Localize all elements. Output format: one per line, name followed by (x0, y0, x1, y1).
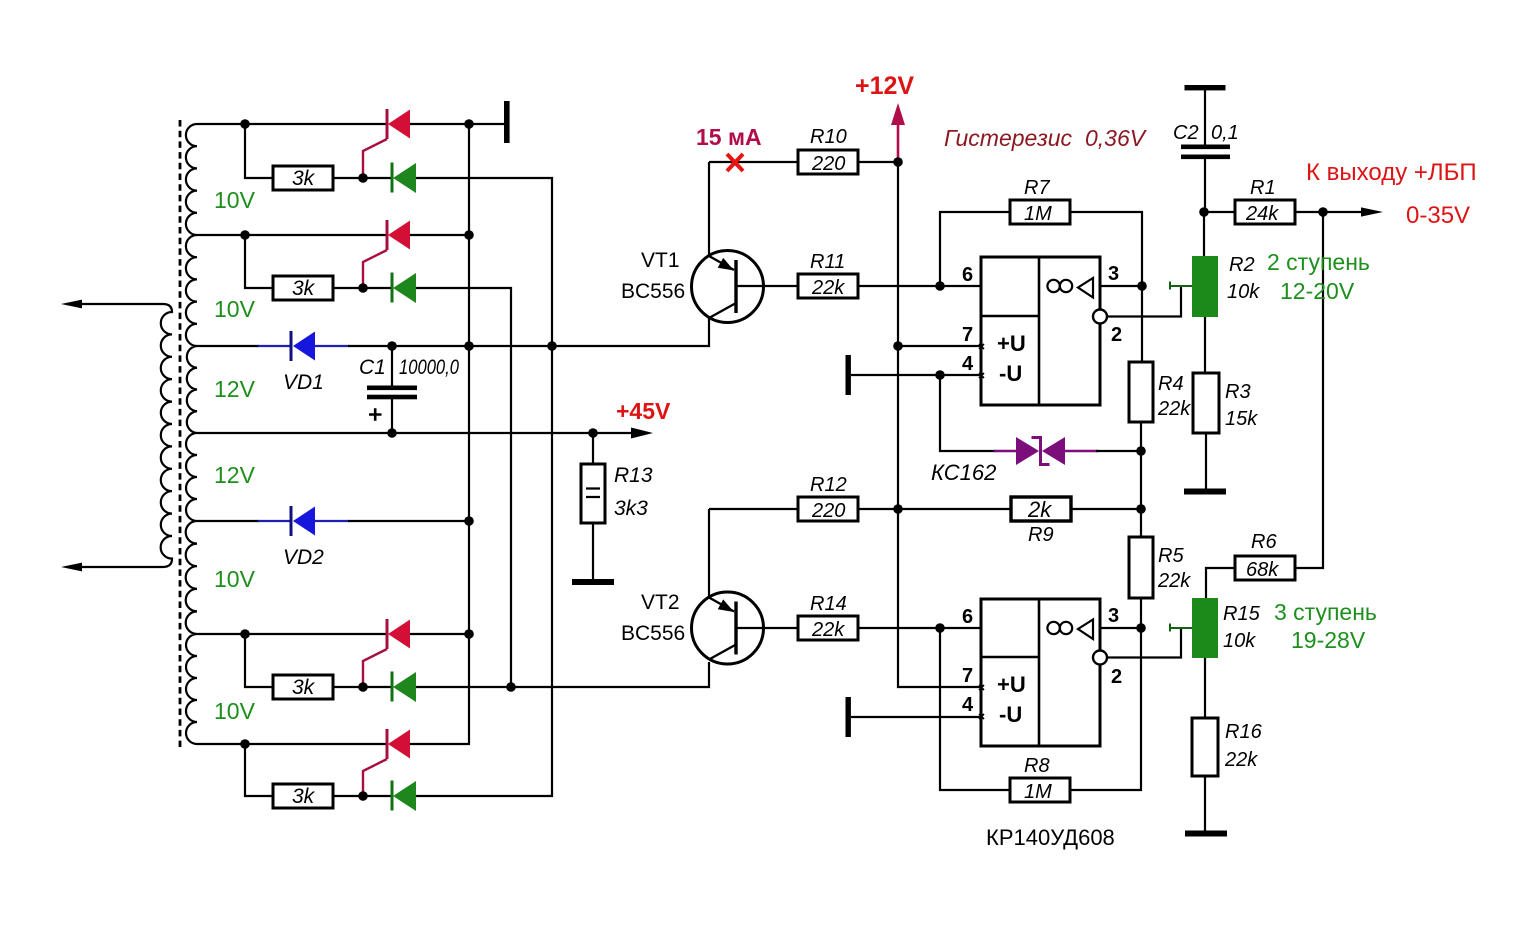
svg-text:Гистерезис: Гистерезис (944, 125, 1073, 151)
resistor R1 24k (1235, 200, 1295, 224)
wire: row7 tap drop to resistor 3k #4 (245, 744, 273, 796)
wire: row3 winding tap to rectifier diode VD1 (197, 345, 259, 347)
svg-text:12V: 12V (214, 376, 256, 402)
wire: DA1.2 pin2 to R15 wiper (1107, 628, 1181, 658)
svg-text:3: 3 (1108, 605, 1119, 627)
trimmer R15 wiper (1170, 624, 1192, 632)
+12V supply arrow (891, 103, 905, 160)
resistor 3k #3 (273, 675, 333, 699)
svg-text:10V: 10V (214, 698, 256, 724)
svg-text:VT1: VT1 (641, 249, 680, 272)
svg-text:R5: R5 (1158, 545, 1184, 567)
wire: R10 to +12V node (858, 161, 898, 163)
wire: R7 right leg (to output node) (1070, 212, 1142, 286)
svg-text:R9: R9 (1028, 524, 1054, 546)
common rail terminal bar (op-amp DA1.2 -U) (846, 697, 851, 737)
capacitor C2 top lead (1204, 90, 1206, 145)
svg-text:2k: 2k (1027, 497, 1052, 522)
chassis terminal bar (top right of transformer) (504, 101, 510, 143)
svg-text:4: 4 (962, 353, 974, 375)
wire: R13 bottom lead to ground (592, 523, 594, 579)
svg-text:22k: 22k (1224, 749, 1258, 771)
svg-text:2: 2 (1111, 324, 1122, 346)
wire: DA1.1 pin3 output to R4 bus (1100, 285, 1142, 287)
wire: row5 winding tap to rectifier diode VD2 (197, 520, 259, 522)
resistor R7 1M (1010, 200, 1070, 224)
svg-text:+U: +U (997, 672, 1026, 697)
svg-text:0,36V: 0,36V (1085, 125, 1148, 151)
svg-text:VD1: VD1 (283, 371, 324, 394)
wire: +12V bus to op-amp DA1.1 pin 7 (898, 345, 981, 347)
resistor 3k #2 (273, 276, 333, 300)
svg-text:R4: R4 (1158, 373, 1184, 395)
wire: R14 to op-amp DA1.2 pin 6 (858, 627, 981, 629)
svg-text:R1: R1 (1250, 177, 1276, 199)
svg-text:3k3: 3k3 (614, 497, 648, 520)
wire: VT1 base to R11 (736, 285, 798, 287)
svg-text:R12: R12 (810, 474, 847, 496)
resistor R9 2k (1011, 497, 1071, 521)
svg-text:R3: R3 (1225, 381, 1251, 403)
wire: +12V bus down to op-amp DA1.2 pin7 row (898, 162, 981, 687)
wire: terminal bar to op-amp DA1.2 pin 4 (851, 716, 981, 718)
op-amp DA1.1 inverting output bubble (pin 2) (1093, 310, 1107, 324)
svg-text:R10: R10 (810, 126, 847, 148)
svg-text:КС162: КС162 (931, 460, 996, 485)
svg-text:7: 7 (962, 324, 973, 346)
svg-text:10V: 10V (214, 187, 256, 213)
trimmer R2 wiper (1170, 282, 1192, 290)
svg-text:2: 2 (1111, 666, 1122, 688)
wire: VD2 cathode to cathode bus (348, 520, 470, 522)
svg-text:+U: +U (997, 331, 1026, 356)
op-amp DA1.1 body (981, 257, 1100, 405)
wire: VT2 collector lead up to R12 row (708, 509, 710, 598)
wire: feedback bus R6 right leg (output node to R6) (1295, 212, 1323, 568)
wire: 3k #4 to green diode VD6 (333, 795, 391, 797)
wire: R2 bottom to R3 (1204, 317, 1206, 373)
svg-text:+45V: +45V (616, 398, 671, 424)
capacitor C1 bottom lead (391, 399, 393, 433)
wire: DA1.1 pin2 to R2 wiper (1107, 286, 1181, 317)
resistor R6 68k (1235, 556, 1295, 580)
svg-text:R16: R16 (1225, 721, 1263, 743)
svg-text:19-28V: 19-28V (1291, 627, 1366, 653)
svg-text:15 мА: 15 мА (696, 124, 762, 150)
wire: R2 top lead from R1 row (1203, 212, 1205, 256)
svg-text:0-35V: 0-35V (1406, 202, 1470, 229)
resistor R14 22k (798, 616, 858, 640)
capacitor C1 plates (367, 386, 417, 400)
svg-text:C1: C1 (359, 356, 386, 379)
svg-text:+12V: +12V (855, 72, 914, 100)
resistor R8 1M (1010, 778, 1070, 802)
svg-text:R11: R11 (810, 251, 845, 273)
svg-text:R15: R15 (1223, 603, 1261, 625)
svg-text:4: 4 (962, 694, 974, 716)
wire: terminal bar to op-amp DA1.1 pin 4 (851, 374, 981, 376)
wire: R13 top lead (592, 433, 594, 464)
wire: divider bus R4-R5 (x=1141) (1141, 286, 1142, 628)
wire: row2 thyristor VS2 to cathode bus (410, 234, 470, 236)
wire: R8 left leg (to pin6 node) (940, 628, 1010, 790)
svg-text:10k: 10k (1223, 630, 1256, 652)
green diode VD3 (row g1) (392, 163, 416, 194)
svg-text:12V: 12V (214, 462, 256, 488)
+45V supply arrow (631, 428, 653, 439)
wire: row2 tap drop to resistor 3k #2 (245, 235, 273, 288)
svg-text:К выходу +ЛБП: К выходу +ЛБП (1306, 159, 1477, 186)
svg-text:-U: -U (999, 702, 1022, 727)
wire: 3k #3 to green diode VD5 (333, 686, 391, 688)
wire: R7 left leg (to pin6 node) (940, 212, 1010, 286)
wire: green diode VD4 right, down bus to row g3 (416, 288, 511, 687)
wire: R8 right leg (to output node) (1070, 628, 1141, 790)
svg-text:КР140УД608: КР140УД608 (986, 825, 1115, 850)
svg-text:3: 3 (1108, 263, 1119, 285)
wire: R10 row (X mark to R10 box) (709, 161, 798, 163)
wire: row2 winding tap to thyristor VS2 (197, 234, 386, 236)
capacitor C1 top lead (391, 346, 393, 386)
wire: row1 tap drop to resistor 3k #1 (245, 124, 273, 178)
transformer T1 primary winding (81, 304, 172, 567)
wire: center-tap row to +45V arrow (197, 432, 634, 434)
resistor R13 3k3 (581, 464, 605, 523)
resistor R11 22k (798, 274, 858, 298)
svg-text:24k: 24k (1245, 203, 1279, 225)
wire: VT1 emitter lead up to R10 row (708, 162, 710, 256)
thyristor VS1 (row1) (363, 109, 410, 178)
wire: R11 to op-amp DA1.1 pin 6 (858, 285, 981, 287)
wire: row7 thyristor VS4 to cathode bus corner (410, 743, 470, 745)
wire: zener leg from -U rail node (940, 375, 996, 451)
svg-text:10V: 10V (214, 566, 256, 592)
wire: VD1 cathode node to VT1 collector (row 346) (348, 318, 709, 346)
pin tick marks op-amp DA1.2 (979, 685, 984, 719)
svg-text:1M: 1M (1024, 781, 1052, 803)
resistor R12 220 (798, 497, 858, 521)
thyristor VS4 (row7) (363, 729, 410, 797)
wire: R1 row left (C2 node to R1) (1204, 211, 1235, 213)
ground symbol under R3 (1184, 489, 1226, 495)
resistor 3k #1 (273, 166, 333, 190)
wire: row6 winding tap to thyristor VS3 (197, 633, 386, 635)
ground symbol under R16 (1185, 831, 1227, 837)
resistor R10 220 (798, 150, 858, 174)
wire: R1 to output arrow (1295, 211, 1363, 213)
wire: R12 row left (709, 508, 798, 510)
primary terminal arrow (top left) (61, 300, 82, 309)
svg-text:10V: 10V (214, 296, 256, 322)
svg-text:22k: 22k (1157, 570, 1191, 592)
trimmer R15 10k body (1192, 598, 1218, 658)
svg-text:10000,0: 10000,0 (399, 356, 459, 379)
svg-text:VD2: VD2 (283, 546, 324, 569)
svg-text:R7: R7 (1024, 177, 1050, 199)
zener diode VD7 KC162 (bidirectional) (994, 437, 1098, 465)
resistor R4 22k (1129, 362, 1153, 422)
break mark X (15 mA) (727, 154, 743, 171)
wire: thyristor cathode bus (vertical x=469) (468, 124, 470, 744)
svg-text:BC556: BC556 (621, 622, 685, 645)
svg-text:7: 7 (962, 665, 973, 687)
transistor VT1 BC556 (692, 251, 764, 323)
transistor VT2 BC556 (692, 592, 764, 664)
capacitor C2 bottom lead (1204, 159, 1206, 212)
wire: 3k #2 to green diode VD4 (333, 287, 391, 289)
svg-text:10k: 10k (1227, 281, 1260, 303)
svg-text:BC556: BC556 (621, 280, 685, 303)
svg-text:220: 220 (811, 153, 845, 175)
svg-text:R14: R14 (810, 593, 847, 615)
green diode VD5 (row g3) (392, 672, 416, 703)
resistor R3 15k (1193, 373, 1219, 433)
svg-text:R6: R6 (1251, 531, 1277, 553)
svg-text:-U: -U (999, 361, 1022, 386)
resistor R5 22k (1129, 537, 1153, 598)
transformer T1 core (dashed) (179, 120, 182, 747)
svg-text:22k: 22k (1157, 398, 1191, 420)
wire: R12 to +12V bus node (858, 508, 898, 510)
output arrow (К выходу +ЛБП) (1361, 207, 1383, 216)
svg-text:R13: R13 (614, 464, 653, 487)
wire: R3 bottom lead to ground (1205, 433, 1207, 489)
svg-text:12-20V: 12-20V (1280, 278, 1355, 304)
thyristor VS3 (row6) (363, 619, 410, 688)
wire: R9 to R4/R5 bus (1071, 508, 1141, 510)
wire: row1 winding top to thyristor VS1 (197, 123, 386, 125)
wire: row7 winding bottom to thyristor VS4 (197, 743, 386, 745)
wire: zener to R4/R5 bus (1096, 450, 1141, 452)
primary terminal arrow (bottom left) (61, 563, 82, 572)
wire: row1 thyristor VS1 to chassis terminal (410, 123, 504, 125)
svg-text:3k: 3k (292, 167, 316, 190)
svg-text:1M: 1M (1024, 203, 1052, 225)
pin tick marks op-amp DA1.1 (979, 344, 984, 378)
capacitor C2 plates (1181, 145, 1230, 160)
svg-text:0,1: 0,1 (1211, 122, 1239, 144)
op-amp DA1.2 body (981, 599, 1100, 746)
svg-text:2 ступень: 2 ступень (1267, 249, 1370, 275)
svg-text:3 ступень: 3 ступень (1274, 599, 1377, 625)
svg-text:6: 6 (962, 606, 973, 628)
wire: R16 bottom lead to ground (1204, 776, 1206, 831)
wire: green diode VD3 to +C bus / green diode VD6 loop (416, 178, 552, 796)
svg-text:C2: C2 (1173, 122, 1199, 144)
trimmer R2 10k body (1192, 256, 1218, 317)
resistor R16 22k (1192, 718, 1218, 776)
green diode VD6 (row g4) (392, 781, 416, 812)
svg-text:R8: R8 (1024, 755, 1050, 777)
wire: DA1.2 pin3 output to R5 bus (1100, 627, 1142, 629)
svg-text:15k: 15k (1225, 408, 1258, 430)
svg-text:68k: 68k (1246, 559, 1279, 581)
wire: R9 row left (from R12/+12V node) (898, 508, 1011, 510)
ground symbol under R13 (572, 579, 614, 585)
rectifier diode VD2 (258, 506, 349, 536)
svg-text:VT2: VT2 (641, 591, 680, 614)
chassis terminal bar above C2 (1185, 85, 1226, 90)
wire: green diode VD5 to VT2 emitter (row g3) (416, 662, 709, 687)
green diode VD4 (row g2) (392, 273, 416, 304)
common rail terminal bar (op-amp DA1.1 -U) (846, 355, 851, 395)
svg-text:R2: R2 (1229, 254, 1255, 276)
wire: 3k #1 to green diode VD3 (333, 177, 391, 179)
svg-text:3k: 3k (292, 785, 316, 808)
capacitor C1 polarity + sign (369, 408, 382, 421)
svg-text:220: 220 (811, 500, 845, 522)
transformer T1 secondary winding (6 sections, taps at rows) (186, 124, 197, 744)
wire: R15 bottom to R16 (1204, 658, 1206, 718)
op-amp DA1.2 inverting output bubble (pin 2) (1093, 651, 1107, 665)
svg-text:3k: 3k (292, 676, 316, 699)
svg-text:22k: 22k (811, 277, 845, 299)
wire: VT2 base to R14 (736, 627, 798, 629)
wire: row6 tap drop to resistor 3k #3 (245, 634, 273, 687)
wire: row6 thyristor VS3 to cathode bus (410, 633, 470, 635)
svg-text:22k: 22k (811, 619, 845, 641)
svg-text:6: 6 (962, 264, 973, 286)
thyristor VS2 (row2) (363, 220, 410, 289)
resistor 3k #4 (273, 784, 333, 808)
rectifier diode VD1 (258, 331, 349, 361)
wire: R6 left leg down to R15 top (1206, 568, 1235, 598)
svg-text:3k: 3k (292, 277, 316, 300)
